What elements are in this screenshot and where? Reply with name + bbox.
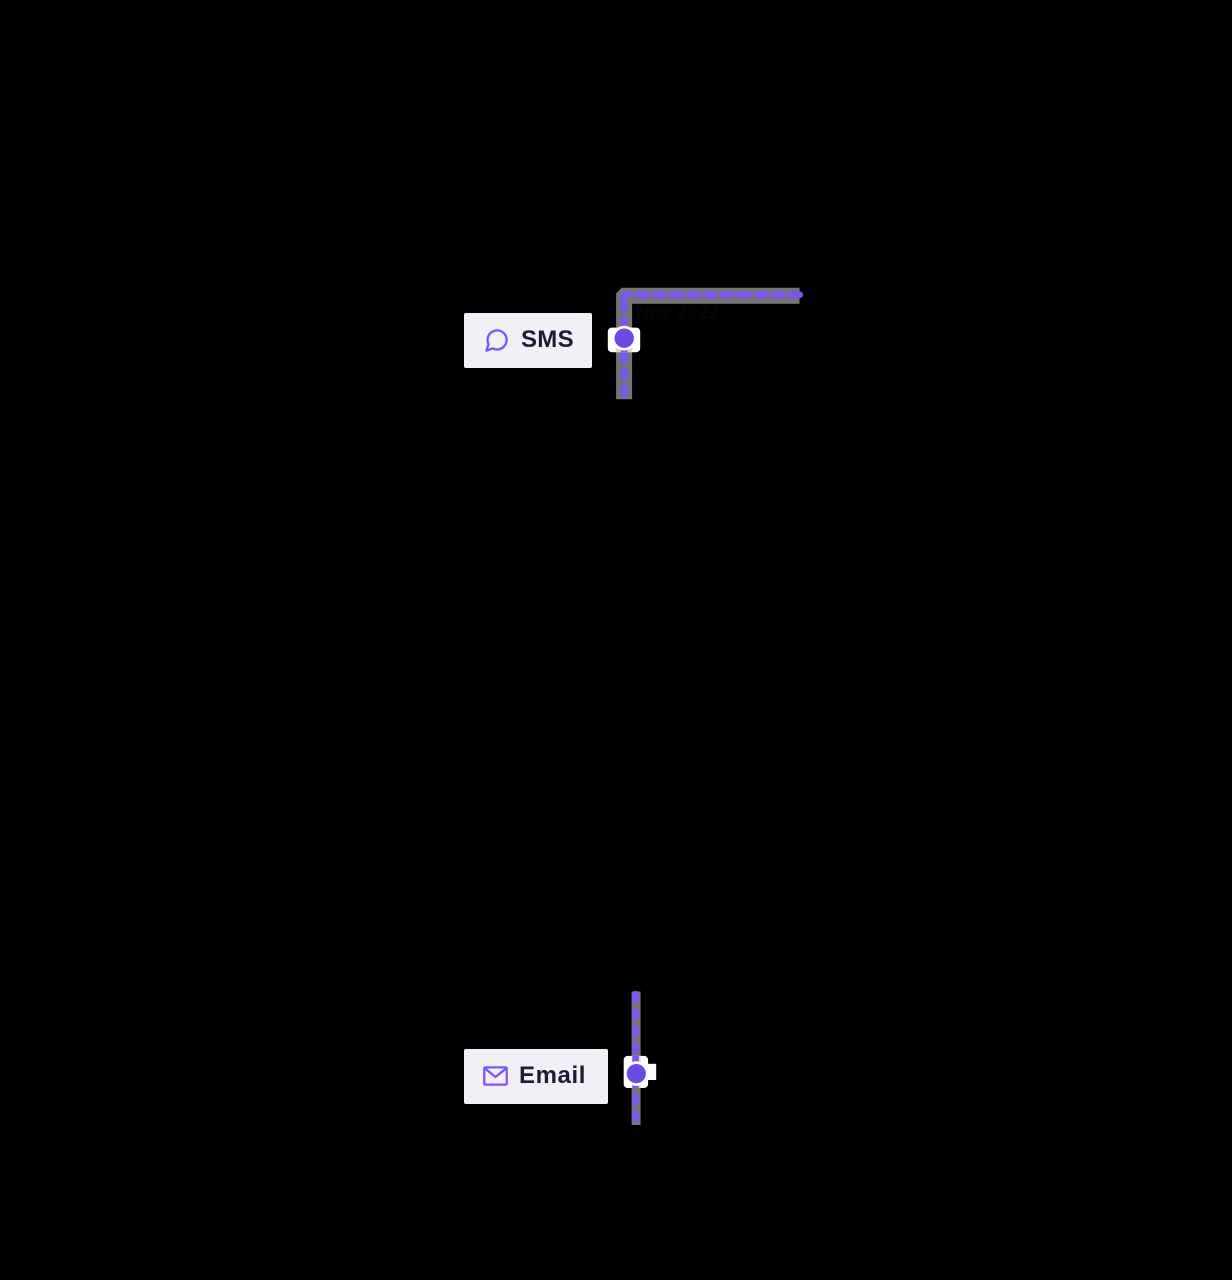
svg-text:Nov 2022: Nov 2022 [636, 303, 719, 324]
wire (dashed purple) Email vertical connector [632, 994, 639, 1122]
Email node label [464, 1049, 608, 1104]
node A white ring [612, 326, 637, 351]
dash over email handle [632, 1056, 639, 1088]
grey band over handle box [616, 328, 632, 353]
node A purple dot [615, 329, 634, 348]
grey band over email handle box [632, 1056, 641, 1088]
node B purple dot [627, 1064, 646, 1083]
handle side nub (white) [648, 1064, 656, 1080]
wire underlay (grey band) for Email connector [632, 992, 641, 1126]
dash over handle [621, 328, 628, 353]
handle box (white) at SMS junction [608, 328, 640, 353]
wire (dashed purple) SMS connector vertical run [621, 303, 628, 397]
handle box (white) at Email junction [624, 1056, 648, 1088]
SMS chat-bubble icon [483, 327, 510, 354]
wire (dashed purple) SMS connector horizontal run [624, 295, 799, 297]
node B white ring [624, 1061, 649, 1086]
SMS node label [464, 313, 592, 368]
wire underlay (grey band) for SMS connector [624, 296, 799, 400]
Email envelope icon [483, 1066, 508, 1086]
